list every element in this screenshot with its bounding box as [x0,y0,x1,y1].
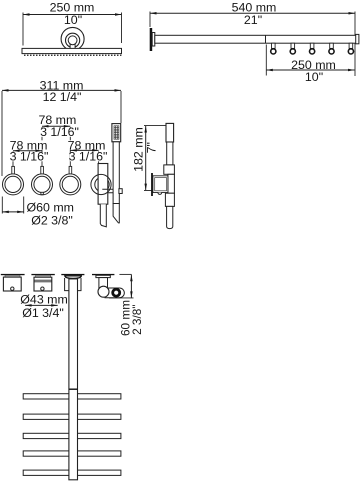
extension tick knob3 center [69,127,71,167]
arm socket [65,278,81,291]
nozzle 4 [329,43,334,54]
knob 3 outer ring [60,174,81,195]
nozzle 3 [310,43,315,54]
dimension label 3 1/16 inch (left pair) [10,149,49,163]
dimension line 182mm [144,126,147,190]
holder spout lower [100,204,106,227]
svg-text:Ø1 3/4": Ø1 3/4" [22,306,64,320]
tube joint divider [265,35,267,43]
dimension label 78 mm (center pair) [38,113,76,127]
knob 3 inner circle [62,176,78,192]
extension line d60 left [1,197,3,214]
holder plan arm capsule [105,288,125,298]
swivel joint stem [70,43,75,49]
head bar 2 [23,414,121,419]
dimension line 250mm (arm) [266,69,354,72]
dimension label 78 mm (left pair) [10,138,48,152]
knob 2 inner circle [34,176,50,192]
holder arm lines [102,189,113,193]
head bar 4 [23,451,121,456]
dimension label 78 mm (right pair) [68,138,106,152]
svg-text:3 1/16": 3 1/16" [10,149,49,163]
bracket body outer [153,176,168,193]
hand shower head (front) [112,124,121,142]
extension line left (arm 250) [265,45,267,76]
extension line right shared 540/250 [354,12,356,77]
lower connector (side) [165,193,174,206]
extension line 182 bottom [144,190,153,192]
extension line d60 right [23,197,25,214]
wall line segment arm [61,274,84,275]
tube joint line [69,388,78,390]
extension tick holder center [98,152,100,164]
knob 1 lever stub [12,166,15,174]
knob 2 outer ring [32,174,53,195]
arm tube plan [69,279,78,480]
knob1 plan body [3,277,21,291]
hand shower head plan (dark ring) [113,289,120,296]
hose connector square [119,189,122,194]
extension line right [121,13,123,44]
knob2 plan body [34,277,52,291]
holder flange inner circle [95,177,109,191]
extension tick knob2 center [41,127,43,167]
svg-text:10": 10" [64,13,82,27]
nozzle 2 [290,43,295,54]
svg-text:182 mm: 182 mm [131,127,145,172]
rod segment behind bracket [168,174,175,193]
dimension line 78mm left [13,150,42,153]
dimension label 3 1/16 inch (right pair) [69,149,108,163]
hand shower handle (front) [113,142,119,204]
dimension line 78mm right [70,149,98,152]
dimension arrows d43 [25,304,58,307]
collar joint (side) [164,165,175,174]
extension line left (wall face) [149,12,151,28]
arm ceiling flange (dark lens) [65,276,81,279]
extension line right 311 [120,91,122,123]
svg-text:3 1/16": 3 1/16" [40,125,79,139]
handle (side) [167,142,173,165]
holder flange outer circle [91,174,111,194]
arm tube [155,35,356,43]
nozzle 5 [348,43,353,54]
dimension line 311mm [2,89,121,92]
dimension line 78mm center [42,125,70,128]
knob 2 bottom tick [41,192,43,194]
extension line 182 top [144,125,166,127]
swivel joint outer circle [61,27,84,50]
svg-text:Ø2 3/8": Ø2 3/8" [31,213,73,227]
knob 2 lever stub [41,166,44,174]
wall line segment holder [92,274,114,275]
svg-text:7": 7" [145,142,159,153]
knob1 plan lever circle [11,287,14,290]
dimension line d60 [2,211,23,214]
wall flange plate [150,28,153,51]
knob 3 lever stub [69,166,72,174]
holder body [98,164,108,205]
wall line segment knob2 [31,274,54,275]
head bar 1 [23,394,121,399]
holder plan circle [98,286,109,297]
end cap [356,34,359,43]
bracket screw bump [158,193,162,195]
dimension line 540mm [150,12,355,15]
knob1 plan flange [5,275,20,277]
hand shower head (side) [166,123,174,142]
nozzle 1 [271,43,276,54]
extension line 60mm bottom [109,297,134,299]
wall plate (side) [151,173,153,196]
hand shower hose end (front) [113,204,119,223]
extension line 60mm top [119,273,131,275]
knob 1 inner circle [5,176,21,192]
extension tick knob1 center [12,152,14,167]
head bar 5 [23,470,121,475]
svg-text:12 1/4": 12 1/4" [43,90,82,104]
dimension label 3 1/16 inch (center pair) [40,125,79,139]
nozzle dots row [24,55,121,56]
head spray grid [114,126,119,139]
swivel joint middle circle [66,33,80,47]
svg-text:Ø43 mm: Ø43 mm [20,292,68,306]
hose (side) [167,206,173,228]
svg-text:2 3/8": 2 3/8" [130,304,144,334]
flange collar [152,33,155,47]
swivel joint inner circle [68,36,77,45]
svg-text:21": 21" [244,13,262,27]
holder plan flange [96,275,110,277]
knob 1 outer ring [3,174,24,195]
bracket body inner line [155,178,167,191]
extension line left [22,13,24,46]
knob2 plan lever circle [41,287,44,290]
wall line segment knob1 [1,274,25,275]
knob2 plan flange [36,275,51,277]
holder plan stem [99,278,108,288]
extension line left 311 [1,91,3,176]
head bar 3 [23,433,121,438]
head plate [22,48,122,53]
knob2 plan ring line [34,279,52,281]
svg-text:3 1/16": 3 1/16" [69,149,108,163]
svg-text:10": 10" [305,70,323,84]
dimension line 250mm [23,13,122,16]
dimension line 60mm [130,275,133,298]
